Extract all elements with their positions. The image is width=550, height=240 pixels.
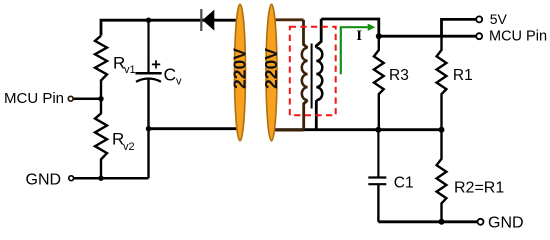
node R3 top <box>376 33 382 39</box>
svg-text:MCU Pin: MCU Pin <box>4 90 64 107</box>
node R3/C1 middle <box>375 127 381 133</box>
wire middle horizontal right segment <box>272 128 442 131</box>
wire secondary top to right corner <box>321 19 379 36</box>
wire bottom right <box>378 220 477 223</box>
node Cv middle junction <box>146 126 151 131</box>
ellipse 220V #2 <box>261 4 281 141</box>
resistor Rv1 <box>95 36 107 99</box>
capacitor Cv <box>135 20 161 178</box>
svg-text:GND: GND <box>488 214 524 231</box>
resistor Rv2 <box>95 99 107 179</box>
node R2 bottom <box>439 219 445 225</box>
capacitor C1 <box>368 130 386 222</box>
svg-text:v: v <box>176 76 182 88</box>
svg-text:R1: R1 <box>453 67 473 84</box>
transformer primary winding <box>272 20 308 130</box>
wire MCU Pin row right <box>379 35 477 38</box>
plus sign of Cv <box>152 60 160 68</box>
node top Cv junction <box>146 18 151 23</box>
wire middle horizontal (C_v node to R1 bottom node) <box>149 127 241 130</box>
svg-text:R3: R3 <box>389 67 409 84</box>
svg-text:5V: 5V <box>490 11 508 27</box>
svg-text:220V: 220V <box>261 48 281 89</box>
svg-text:R2=R1: R2=R1 <box>454 179 504 196</box>
svg-text:v1: v1 <box>124 64 136 76</box>
ellipse 220V #1 <box>230 4 250 141</box>
terminal 5V <box>476 16 482 22</box>
terminal GND left <box>69 176 74 181</box>
resistor R3 <box>374 36 384 130</box>
svg-text:I: I <box>356 28 362 44</box>
transformer core <box>311 44 313 109</box>
terminal GND right <box>478 219 484 225</box>
terminal MCU Pin right <box>476 33 482 39</box>
svg-text:220V: 220V <box>230 48 250 89</box>
node GND-Rv2 junction <box>98 176 103 181</box>
transformer secondary winding <box>316 19 322 130</box>
wire top-left horizontal (R_v1 top corner to primary) <box>101 20 240 35</box>
red dashed box around transformer <box>290 27 336 115</box>
node R1/R2 middle <box>439 127 445 133</box>
diode D1 <box>200 9 202 31</box>
terminal MCU Pin left <box>68 96 73 101</box>
resistor R2 <box>437 130 447 222</box>
wire GND left <box>74 177 149 180</box>
wire top transition to transformer primary <box>272 18 304 21</box>
svg-text:v2: v2 <box>123 141 135 153</box>
wire MCU Pin left <box>73 97 101 100</box>
node MCU pin junction <box>98 96 103 101</box>
svg-text:MCU Pin: MCU Pin <box>489 29 547 45</box>
current arrow I <box>341 27 368 74</box>
resistor R1 <box>437 36 447 130</box>
svg-text:C: C <box>164 65 177 85</box>
svg-text:GND: GND <box>26 172 62 189</box>
svg-text:C1: C1 <box>394 175 414 192</box>
wire 5V jog <box>442 19 477 36</box>
